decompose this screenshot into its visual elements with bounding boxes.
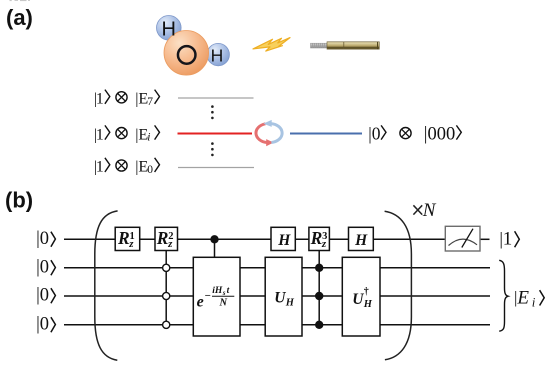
svg-text:|000: |000 xyxy=(424,124,455,144)
svg-text:−: − xyxy=(205,290,211,302)
svg-text:1: 1 xyxy=(96,158,104,176)
svg-text:|0: |0 xyxy=(36,229,49,249)
energy level row 3: ket |1> (x) |E0> xyxy=(94,158,160,176)
water molecule: hydrogen sphere H2 xyxy=(207,43,229,65)
wire 1 xyxy=(64,238,445,240)
qubit ket |0> wire 1 xyxy=(36,229,55,249)
control line from dot to e-box xyxy=(214,239,216,257)
evolution gate box e^{-iHst/N} xyxy=(193,257,240,336)
right repetition parenthesis xyxy=(385,211,412,360)
svg-text:0: 0 xyxy=(147,164,153,176)
svg-text:i: i xyxy=(147,132,150,144)
result ket |0> (x) |000> xyxy=(368,123,461,144)
vertical dots between E7 and Ei xyxy=(211,105,214,119)
svg-text:H: H xyxy=(277,232,291,249)
svg-text:R: R xyxy=(156,228,169,248)
svg-text:H: H xyxy=(285,298,295,309)
open control on wire 3 xyxy=(163,292,170,299)
transition cycle icon: red arc xyxy=(256,124,267,143)
left repetition parenthesis xyxy=(95,211,118,360)
water molecule: oxygen sphere O xyxy=(164,31,209,76)
wire 2 xyxy=(64,267,490,269)
qubit ket |0> wire 4 xyxy=(36,315,55,335)
svg-text:E: E xyxy=(516,287,529,308)
svg-text:U: U xyxy=(352,291,364,308)
water molecule: hydrogen sphere H1 xyxy=(157,15,182,40)
energy level line Ei (red) xyxy=(178,133,253,135)
energy level row 2: ket |1> (x) |Ei> xyxy=(94,125,160,143)
svg-text:1: 1 xyxy=(96,125,104,143)
gate UH dagger xyxy=(342,257,380,336)
svg-text:H: H xyxy=(354,232,368,249)
transition cycle icon: red arrowhead xyxy=(266,139,273,146)
measurement meter xyxy=(445,226,480,251)
decay line (blue) xyxy=(290,133,362,135)
transition cycle icon: blue arrowhead xyxy=(263,120,271,127)
svg-text:e: e xyxy=(197,294,204,311)
vertical dots between Ei and E0 xyxy=(211,142,214,156)
svg-text:7: 7 xyxy=(147,96,153,108)
lightning bolt xyxy=(253,38,290,52)
svg-text:U: U xyxy=(274,290,286,307)
wire 1 stub after meter xyxy=(480,238,490,240)
svg-text:1: 1 xyxy=(130,231,135,242)
filled control on wire 2 xyxy=(315,264,323,272)
qubit ket |0> wire 3 xyxy=(36,286,55,306)
gate UH xyxy=(265,257,302,336)
svg-text:1: 1 xyxy=(503,229,513,250)
gate H (first) xyxy=(271,227,295,250)
control dot on wire 1 for e-box xyxy=(210,235,218,243)
NMR probe: gray threaded tip xyxy=(311,43,328,48)
transition cycle icon: blue arc xyxy=(271,124,282,143)
filled control on wire 4 xyxy=(315,321,323,329)
wire 4 xyxy=(64,324,490,326)
svg-text:i: i xyxy=(532,294,536,309)
open control on wire 4 xyxy=(163,321,170,328)
gate Rz2 xyxy=(155,227,178,250)
svg-text:H: H xyxy=(162,18,176,40)
measured ket |1> xyxy=(499,229,519,250)
svg-text:H: H xyxy=(363,299,373,310)
svg-text:|0: |0 xyxy=(36,258,49,278)
svg-text:R: R xyxy=(310,228,323,248)
NMR probe: brass body xyxy=(327,42,379,49)
svg-text:H: H xyxy=(211,46,224,66)
cropped text remnant top edge xyxy=(10,0,31,1)
svg-text:N: N xyxy=(219,298,228,309)
svg-text:(b): (b) xyxy=(5,188,33,213)
svg-text:2: 2 xyxy=(168,231,173,242)
svg-text:|0: |0 xyxy=(36,286,49,306)
open control on wire 2 xyxy=(163,264,170,271)
energy level line E0 xyxy=(178,167,254,169)
repetition count x N xyxy=(413,200,436,221)
svg-text:R: R xyxy=(117,228,130,248)
svg-text:t: t xyxy=(227,286,230,296)
svg-text:†: † xyxy=(364,286,369,297)
atom label O xyxy=(178,46,196,64)
svg-text:|0: |0 xyxy=(36,315,49,335)
svg-text:1: 1 xyxy=(96,90,104,108)
Rz2 control line xyxy=(165,251,167,325)
svg-text:(a): (a) xyxy=(6,5,33,30)
output brace xyxy=(499,260,508,331)
gate H (second) xyxy=(349,227,374,250)
energy level row 1: ket |1> (x) |E7> xyxy=(94,90,160,108)
svg-text:iH: iH xyxy=(212,286,223,296)
qubit ket |0> wire 2 xyxy=(36,258,55,278)
Rz3 control line xyxy=(318,251,320,325)
svg-text:|0: |0 xyxy=(368,123,381,143)
filled control on wire 3 xyxy=(315,292,323,300)
svg-text:3: 3 xyxy=(322,231,327,242)
svg-text:N: N xyxy=(422,200,437,221)
wire 3 xyxy=(64,295,490,297)
output ket |Ei> xyxy=(514,287,544,309)
gate Rz3 xyxy=(309,227,330,250)
gate Rz1 xyxy=(115,227,140,250)
energy level line E7 xyxy=(178,97,254,99)
